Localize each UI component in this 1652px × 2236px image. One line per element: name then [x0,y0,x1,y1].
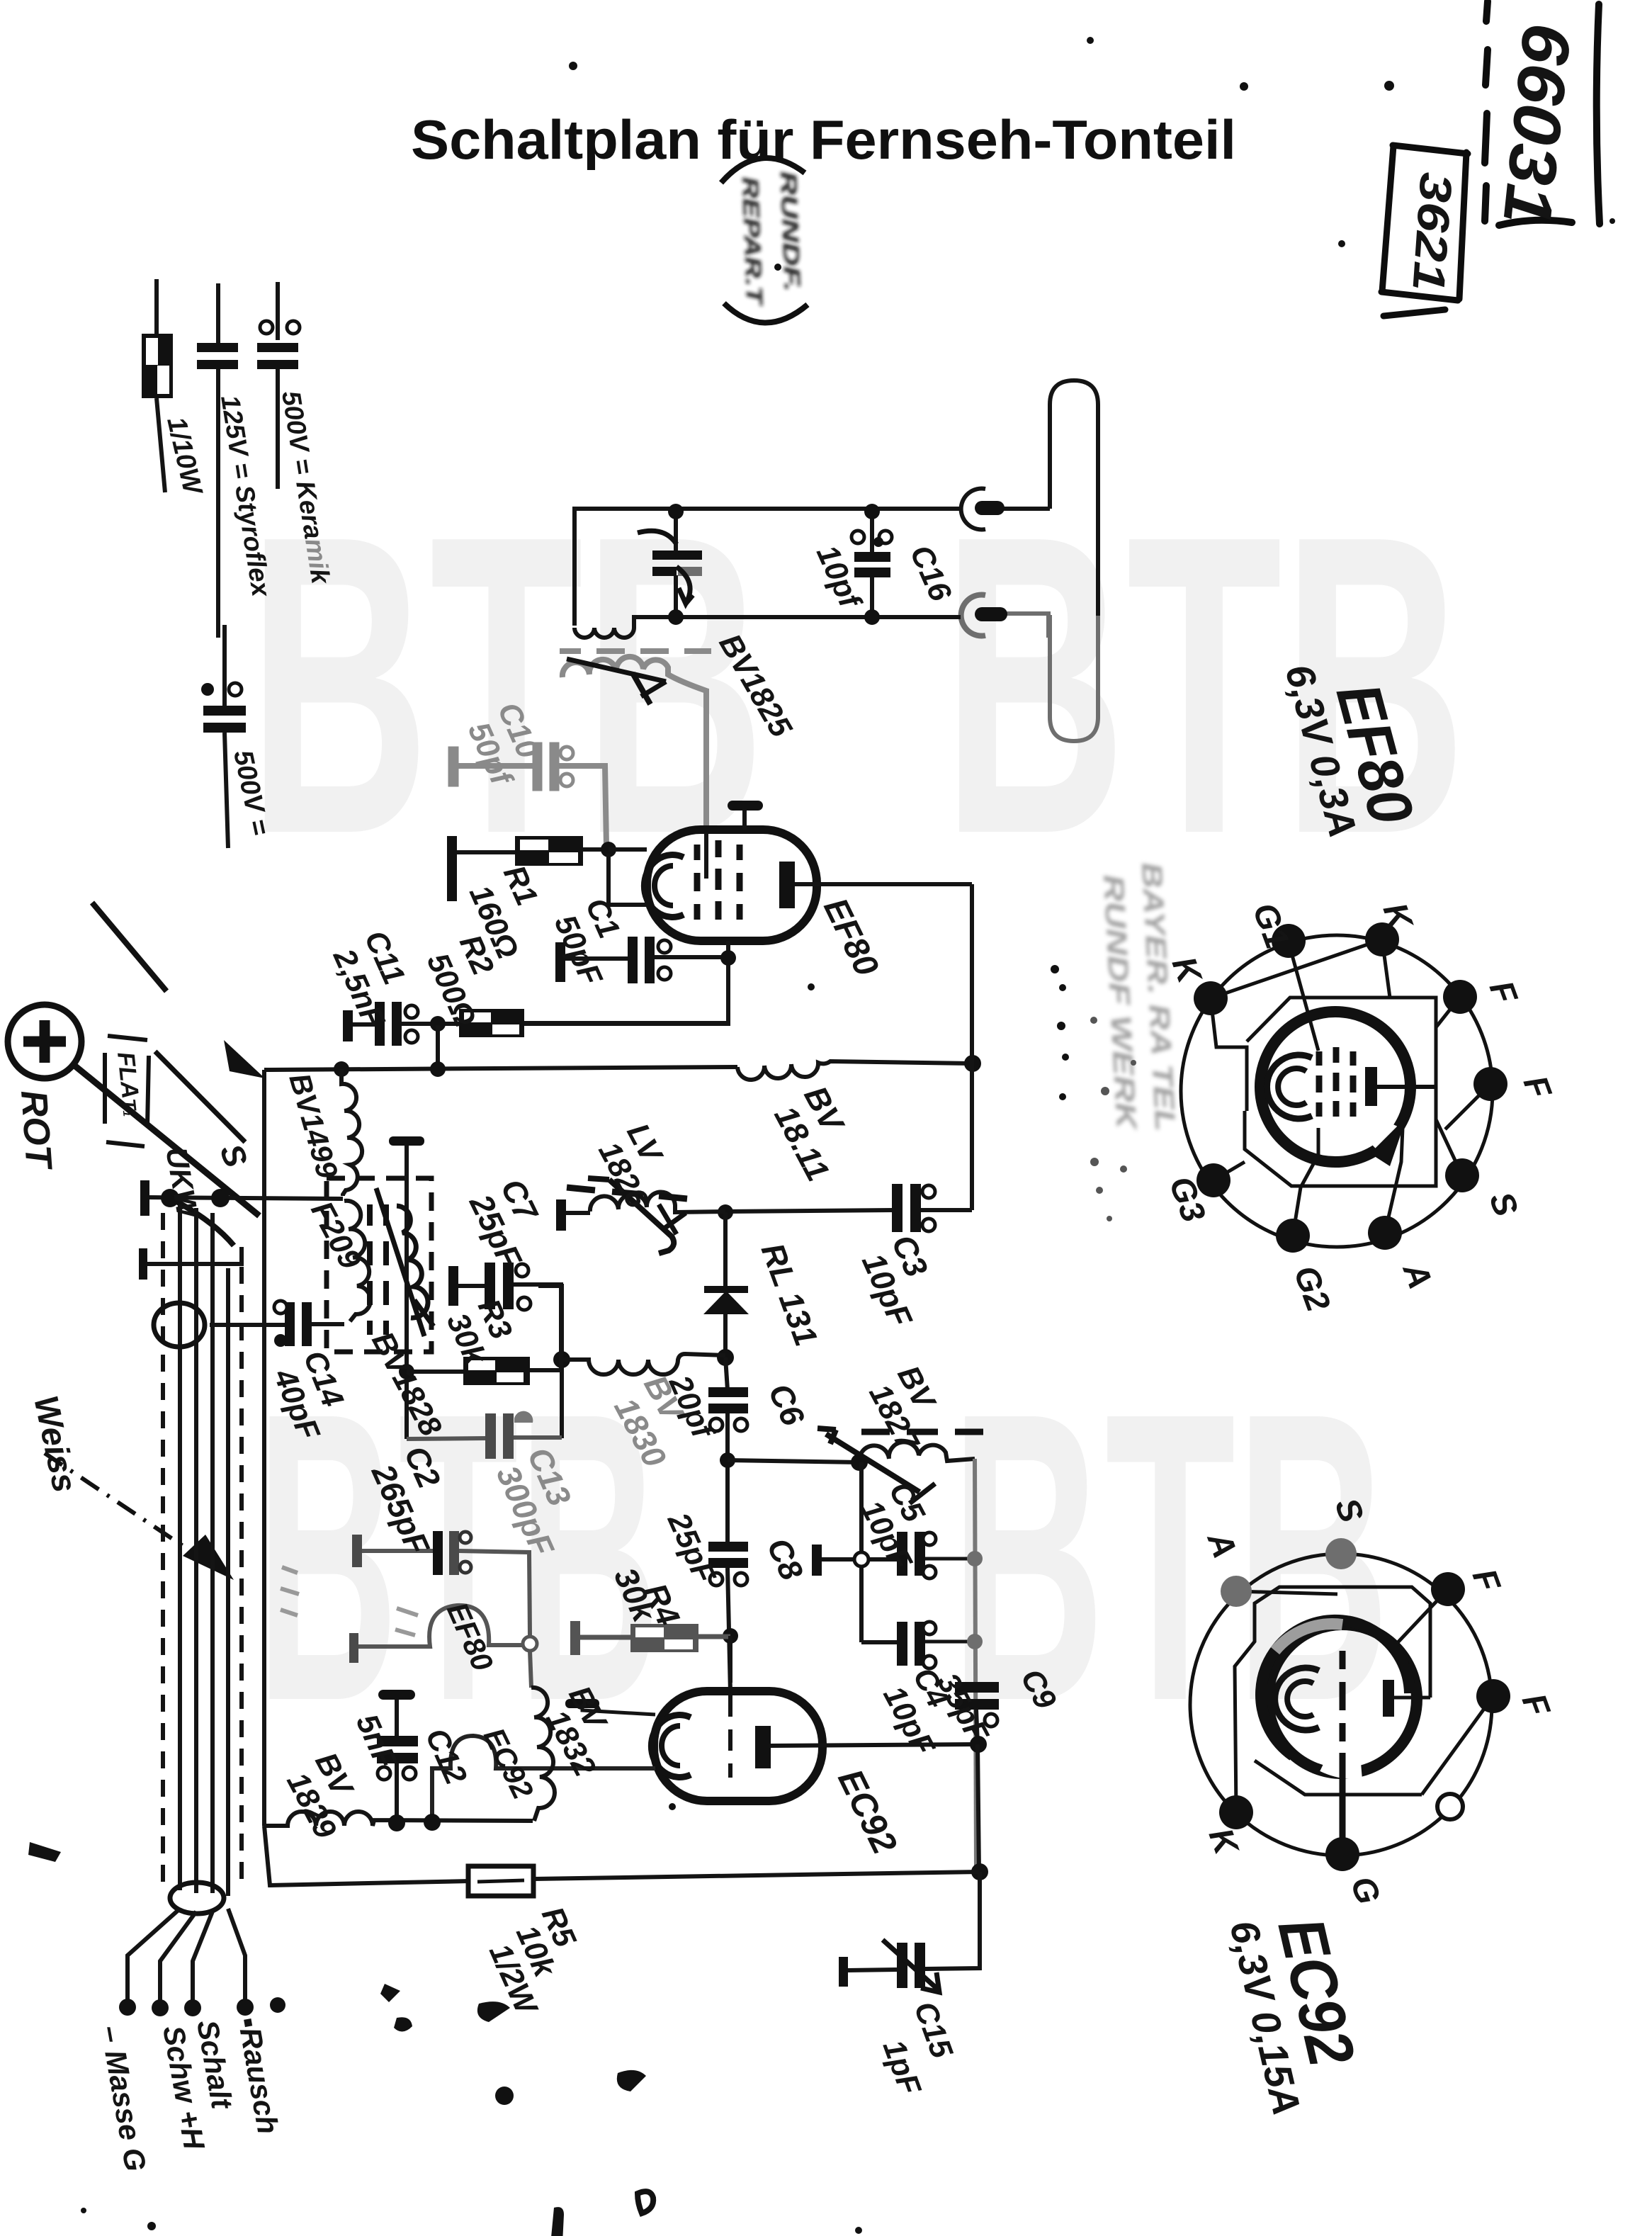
svg-text:3621: 3621 [1403,171,1462,293]
svg-text:RUNDF.: RUNDF. [776,171,805,292]
svg-text:Schaltplan für Fernseh-Tonteil: Schaltplan für Fernseh-Tonteil [411,108,1236,171]
svg-text:BTB: BTB [951,1327,1390,1786]
svg-text:REPAR.T: REPAR.T [737,176,767,307]
svg-text:ROT: ROT [13,1089,60,1173]
